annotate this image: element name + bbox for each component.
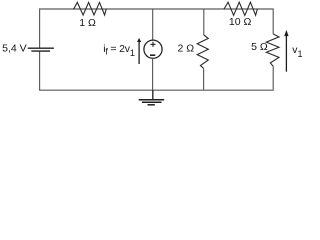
svg-text:10 Ω: 10 Ω xyxy=(229,16,252,28)
wire branch 2ohm bottom xyxy=(203,68,205,90)
wire middle branch bottom xyxy=(152,58,154,90)
wire top rail xyxy=(40,9,274,48)
voltage source battery 5,4V xyxy=(28,48,54,51)
resistor R2 2ohm xyxy=(197,35,208,68)
resistor R4 5ohm xyxy=(266,34,279,66)
wire branch 2ohm top xyxy=(203,9,205,35)
wire middle branch top xyxy=(152,9,154,40)
ground xyxy=(139,90,165,105)
wire bottom rail xyxy=(40,51,274,90)
svg-text:if = 2v1: if = 2v1 xyxy=(103,43,135,58)
svg-text:5 Ω: 5 Ω xyxy=(251,41,268,53)
voltage arrow v1 xyxy=(284,30,288,72)
minus sign xyxy=(150,54,155,56)
svg-text:1 Ω: 1 Ω xyxy=(79,17,96,29)
dependent source circle xyxy=(144,40,162,58)
svg-text:5,4 V: 5,4 V xyxy=(2,43,27,55)
svg-text:2 Ω: 2 Ω xyxy=(177,43,194,55)
plus sign xyxy=(150,42,155,47)
current arrow if xyxy=(137,38,141,64)
resistor R3 10ohm xyxy=(224,2,257,15)
resistor R1 1ohm xyxy=(74,2,107,15)
svg-text:v1: v1 xyxy=(292,44,302,59)
